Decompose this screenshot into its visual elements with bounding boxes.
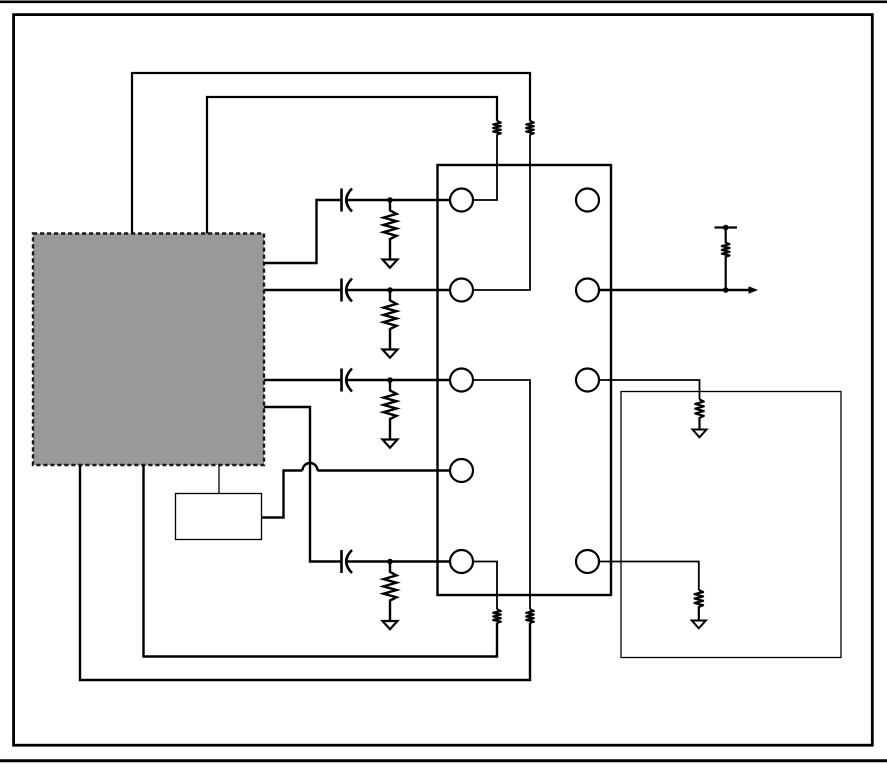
wire C3 to J1 row3 [347, 379, 450, 381]
arrow output [749, 286, 759, 294]
node row2 [387, 287, 393, 293]
ground G3 [383, 440, 398, 448]
wire R8 to U1 bottom pin [144, 465, 498, 657]
pin J1-2 [450, 279, 473, 302]
capacitor C1 [342, 189, 353, 212]
pin J1-9 [576, 550, 599, 573]
IC U1 [33, 234, 264, 466]
node output junction [723, 287, 729, 293]
resistor R4 [384, 562, 397, 622]
node row5 [387, 559, 393, 565]
wire U1 pin4 to C4 [264, 407, 341, 562]
ground G1 [383, 260, 398, 268]
connector J1 [438, 165, 612, 595]
block U2 [621, 392, 841, 658]
resistor R2 [384, 290, 397, 350]
wire R5 to J1 pin row2 [473, 134, 530, 290]
resistor R9 [722, 228, 730, 291]
power rail bar [715, 226, 738, 228]
ground G6 [692, 621, 706, 629]
pin J1-5 [450, 550, 473, 573]
capacitor C4 [342, 550, 353, 573]
wire J1 row5 output to R11 [599, 562, 699, 591]
wire J1 row2 output [599, 289, 750, 291]
capacitor C2 [342, 279, 353, 302]
pin J1-1 [450, 189, 473, 212]
wire J1 row3 output to R10 [599, 380, 700, 400]
wire C4 to J1 row5 [347, 560, 450, 562]
resistor R1 [384, 200, 397, 260]
node row1 [387, 197, 393, 203]
node row3 [387, 377, 393, 383]
wire X1 to J1 row4 with hop [262, 463, 451, 517]
block X1 [176, 494, 262, 540]
wire U1 pin1 to C1 [264, 200, 341, 263]
ground G4 [383, 621, 398, 629]
resistor R11 [695, 590, 704, 621]
wire R7 to U1 bottom pin [80, 465, 530, 680]
resistor R8 [493, 609, 501, 623]
node rail [723, 225, 729, 231]
wire J1 row5 to bottom rail to U1 [473, 562, 497, 610]
wire U1 pin3 to C3 [264, 379, 341, 381]
resistor R7 [526, 609, 534, 623]
pin J1-6 [576, 189, 599, 212]
wire U1 top pin B to R6 [207, 97, 497, 234]
pin J1-8 [576, 369, 599, 392]
resistor R5 [526, 121, 534, 134]
resistor R6 [493, 121, 501, 134]
wire U1 bottom pin to block X1 [218, 465, 220, 494]
wire C1 to J1 row1 [347, 199, 450, 201]
pin J1-4 [450, 459, 473, 482]
ground G2 [383, 350, 398, 358]
resistor R3 [384, 380, 397, 440]
wire C2 to J1 row2 [347, 289, 450, 291]
resistor R10 [695, 400, 704, 430]
wire U1 top pin A to R5 [132, 73, 530, 234]
wire U1 pin2 to C2 [264, 289, 341, 291]
pin J1-3 [450, 369, 473, 392]
ground G5 [693, 430, 707, 438]
wire J1 row3 to bottom rail to U1 [473, 380, 530, 609]
pin J1-7 [576, 279, 599, 302]
capacitor C3 [342, 369, 353, 392]
wire R6 to J1 pin row1 [473, 134, 497, 200]
